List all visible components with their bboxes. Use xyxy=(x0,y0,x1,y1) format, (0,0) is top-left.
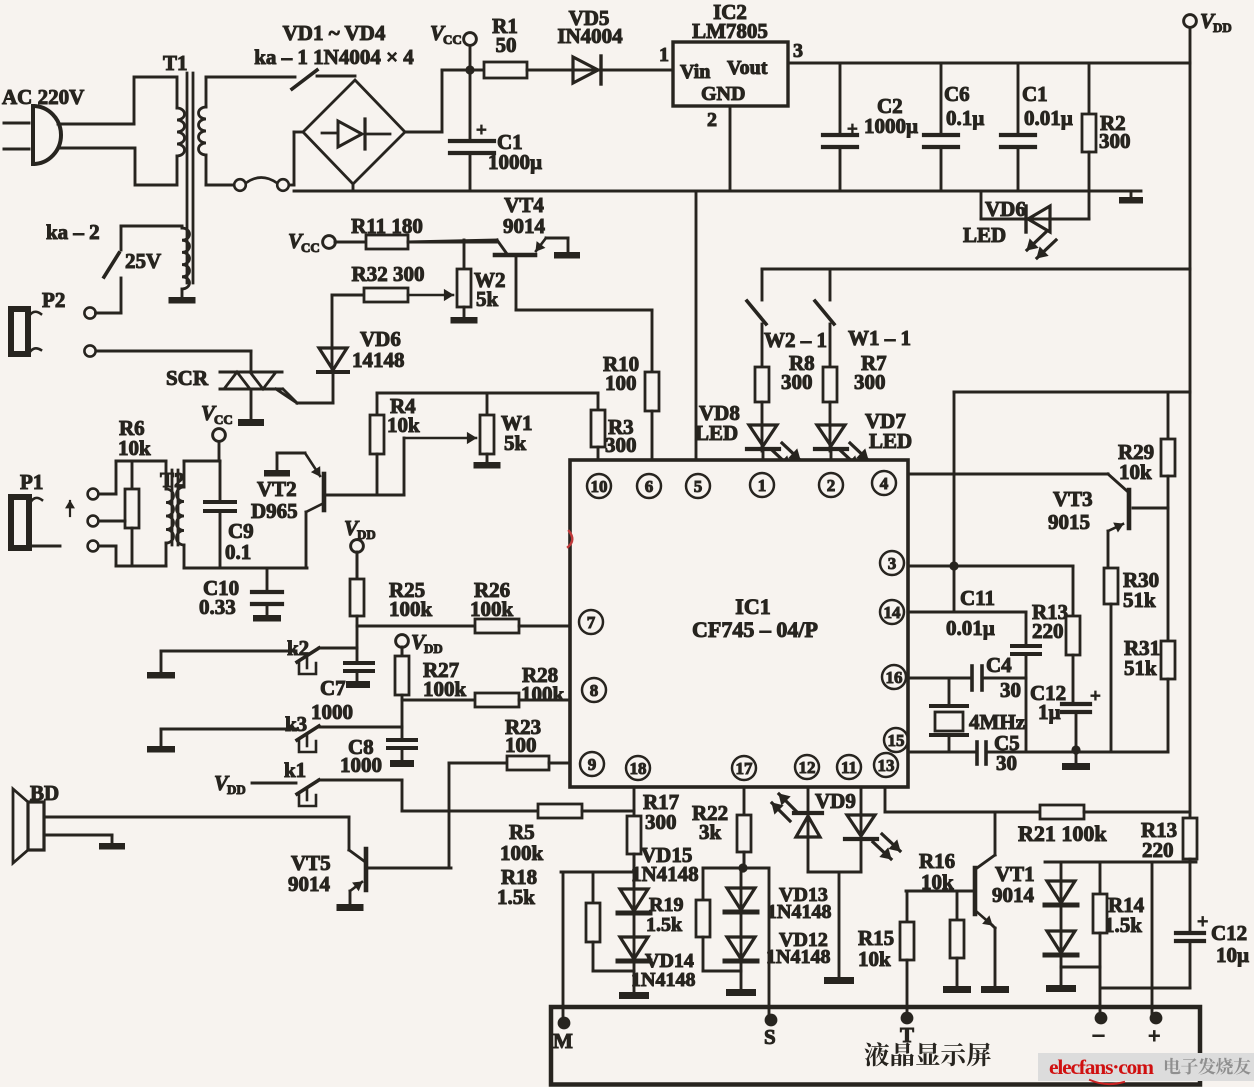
svg-text:100k: 100k xyxy=(389,597,433,621)
svg-text:3k: 3k xyxy=(699,820,722,844)
ground VD12 xyxy=(726,963,756,996)
svg-text:AC 220V: AC 220V xyxy=(2,85,84,109)
svg-text:Vout: Vout xyxy=(727,57,768,79)
svg-text:5k: 5k xyxy=(476,287,499,311)
wire pin16 xyxy=(908,653,1026,702)
svg-text:100: 100 xyxy=(605,371,637,395)
wire pin17 column xyxy=(743,787,746,815)
svg-text:7: 7 xyxy=(587,613,596,632)
resistor R25 100k xyxy=(350,552,433,626)
ground BD xyxy=(99,835,125,850)
svg-text:100k: 100k xyxy=(521,682,565,706)
speaker BD xyxy=(13,781,349,863)
svg-text:D965: D965 xyxy=(251,499,298,523)
terminal Vcc xyxy=(430,21,476,66)
diode VD6 14148 xyxy=(283,295,405,403)
resistor R6 10k xyxy=(99,416,167,566)
label ka-1 1N4004 x4 xyxy=(254,45,414,69)
switch W2-1 xyxy=(747,269,827,352)
svg-text:9: 9 xyxy=(588,755,597,774)
wire bridge to node xyxy=(405,70,470,132)
svg-text:0.01µ: 0.01µ xyxy=(946,616,995,640)
svg-text:5k: 5k xyxy=(504,431,527,455)
wire pin13 column xyxy=(884,787,887,812)
svg-text:LM7805: LM7805 xyxy=(692,19,768,43)
switch k2 xyxy=(161,636,357,674)
svg-text:1000µ: 1000µ xyxy=(864,114,918,138)
wire pin14 xyxy=(908,611,1026,614)
resistor R5 100k xyxy=(402,804,634,865)
LED VD8 xyxy=(695,401,800,467)
potentiometer W2 5k xyxy=(451,240,506,324)
svg-text:+: + xyxy=(476,120,487,141)
ground VT4 xyxy=(554,252,580,259)
watermark chinese xyxy=(1165,1058,1251,1075)
svg-text:R19: R19 xyxy=(649,894,683,916)
wire R23 to VT5 xyxy=(448,763,451,868)
svg-text:50: 50 xyxy=(496,33,517,57)
capacitor C1 1000u xyxy=(450,70,542,191)
transformer T1 secondary winding 1 xyxy=(199,77,296,185)
AC 220V label xyxy=(2,85,84,109)
svg-text:1: 1 xyxy=(659,44,669,66)
diode VD10 xyxy=(1045,862,1077,905)
svg-text:C11: C11 xyxy=(960,586,995,610)
svg-text:CC: CC xyxy=(443,32,462,47)
svg-text:1.5k: 1.5k xyxy=(646,914,683,936)
svg-text:0.01µ: 0.01µ xyxy=(1024,106,1073,130)
resistor R17 300 xyxy=(627,790,679,872)
svg-text:–: – xyxy=(1092,1021,1105,1046)
svg-text:300: 300 xyxy=(645,810,677,834)
ground k3 xyxy=(147,729,175,753)
LCD display box xyxy=(551,1007,1200,1085)
svg-text:30: 30 xyxy=(1000,678,1021,702)
svg-text:IC1: IC1 xyxy=(735,594,770,619)
svg-text:3: 3 xyxy=(793,40,803,62)
watermark band xyxy=(1038,1053,1254,1081)
svg-text:100k: 100k xyxy=(470,597,514,621)
ground VT5 xyxy=(337,904,364,911)
wire T2 bottom rail xyxy=(184,567,307,570)
wire bias rail xyxy=(377,392,598,395)
svg-text:VT3: VT3 xyxy=(1053,487,1093,511)
wire R13 node rail xyxy=(1045,861,1196,864)
AC plug P0 xyxy=(4,106,134,164)
capacitor C6 0.1u xyxy=(924,63,984,191)
resistor R4 10k xyxy=(370,393,420,495)
svg-text:LED: LED xyxy=(963,223,1006,247)
diode VD14 1N4148 xyxy=(618,915,695,991)
terminal Vcc 2 xyxy=(288,229,366,255)
svg-text:10k: 10k xyxy=(858,947,891,971)
svg-text:CC: CC xyxy=(301,240,320,255)
SCR triac xyxy=(166,351,297,403)
svg-text:Vin: Vin xyxy=(680,61,710,83)
resistor R28 100k xyxy=(402,663,570,707)
svg-text:VD6: VD6 xyxy=(985,197,1026,221)
terminal minus xyxy=(1092,1012,1107,1046)
LED VD6 xyxy=(963,191,1089,258)
resistor R2 300 xyxy=(1082,63,1131,191)
svg-text:W2 – 1: W2 – 1 xyxy=(764,328,827,352)
wire plus column xyxy=(1151,862,1154,1014)
wire fuse to bridge xyxy=(294,132,303,185)
svg-text:LED: LED xyxy=(869,429,912,453)
svg-text:VT2: VT2 xyxy=(257,477,297,501)
transformer T1 core xyxy=(187,73,193,283)
svg-text:220: 220 xyxy=(1142,838,1174,862)
svg-text:1.5k: 1.5k xyxy=(1104,913,1142,937)
svg-text:k1: k1 xyxy=(284,758,306,782)
svg-text:10µ: 10µ xyxy=(1216,943,1249,967)
svg-text:14: 14 xyxy=(884,603,902,622)
ground SCR xyxy=(238,389,264,426)
svg-text:51k: 51k xyxy=(1124,656,1157,680)
resistor R27 100k xyxy=(395,647,467,740)
svg-text:1000µ: 1000µ xyxy=(488,150,542,174)
resistor R21 100k xyxy=(885,805,1190,846)
diode VD13 1N4148 xyxy=(725,868,831,923)
svg-text:CF745 – 04/P: CF745 – 04/P xyxy=(692,617,818,642)
ground R16 xyxy=(943,986,971,993)
svg-text:1.5k: 1.5k xyxy=(497,885,535,909)
label Vdd k1 xyxy=(214,771,296,797)
svg-text:R21 100k: R21 100k xyxy=(1018,821,1107,846)
svg-text:2: 2 xyxy=(827,476,836,495)
resistor R14 1.5k xyxy=(1093,862,1145,1014)
resistor R1 xyxy=(470,14,571,78)
transistor VT2 D965 xyxy=(251,453,404,568)
resistor R13 220 osc xyxy=(1032,566,1080,655)
svg-text:13: 13 xyxy=(878,756,895,775)
svg-text:300: 300 xyxy=(781,370,813,394)
terminal M xyxy=(553,1017,573,1053)
svg-text:6: 6 xyxy=(645,477,654,496)
resistor R19 1.5k xyxy=(646,868,741,971)
ground VT1 xyxy=(981,986,1009,993)
switch k3 xyxy=(161,712,402,752)
svg-text:18: 18 xyxy=(630,759,647,778)
ground main rail xyxy=(1119,191,1143,204)
diode VD15 1N4148 xyxy=(618,843,699,913)
crystal X1 4MHz xyxy=(931,678,1025,752)
terminal Vdd 3 xyxy=(396,630,443,656)
wire M node xyxy=(561,872,634,1020)
resistor R26 100k xyxy=(357,578,570,633)
terminal T xyxy=(900,1012,914,1047)
wire Vdd rail xyxy=(1189,28,1192,819)
svg-text:ka – 1 1N4004 × 4: ka – 1 1N4004 × 4 xyxy=(254,45,414,69)
connector P2 xyxy=(11,288,96,357)
node junction Vcc xyxy=(465,65,474,74)
resistor R30 51k xyxy=(1104,568,1159,752)
svg-text:0.1µ: 0.1µ xyxy=(946,106,984,130)
terminal plus xyxy=(1148,1012,1162,1048)
svg-text:P2: P2 xyxy=(42,288,65,312)
node osc ground xyxy=(1071,745,1080,754)
wire pin5 ground xyxy=(695,191,698,460)
wire VT4 to R10 xyxy=(516,257,652,310)
connector P1 xyxy=(11,470,98,551)
red mark artifact xyxy=(568,531,572,547)
IC U1 CF745-04/P xyxy=(570,460,908,787)
resistor R31 51k xyxy=(1124,508,1175,752)
svg-text:10k: 10k xyxy=(921,870,954,894)
svg-text:C6: C6 xyxy=(944,82,970,106)
svg-text:1: 1 xyxy=(758,476,767,495)
wire T2 top rail xyxy=(184,460,220,463)
transformer T1 label xyxy=(163,51,188,75)
svg-text:ka – 2: ka – 2 xyxy=(46,220,100,244)
transformer T2 xyxy=(160,461,185,568)
ground k2 xyxy=(147,651,175,679)
capacitor C10 0.33 xyxy=(199,568,282,622)
svg-text:+: + xyxy=(847,119,858,140)
transformer T1 25V winding xyxy=(121,226,196,304)
diode VD11 xyxy=(1045,907,1077,955)
svg-text:M: M xyxy=(553,1029,573,1053)
svg-text:k3: k3 xyxy=(285,712,307,736)
svg-text:100k: 100k xyxy=(423,677,467,701)
svg-text:S: S xyxy=(764,1025,776,1049)
svg-text:220: 220 xyxy=(1032,619,1064,643)
resistor R15 10k xyxy=(858,891,914,1014)
svg-text:10: 10 xyxy=(591,477,608,496)
svg-text:8: 8 xyxy=(590,681,599,700)
switch k1 xyxy=(284,758,402,806)
wire osc ground rail xyxy=(908,731,1168,775)
resistor R23 100 xyxy=(449,715,570,770)
svg-text:12: 12 xyxy=(799,758,816,777)
svg-text:C1: C1 xyxy=(1022,82,1048,106)
svg-text:P1: P1 xyxy=(20,470,43,494)
switch ka-2 xyxy=(46,220,121,277)
ground VD14 xyxy=(619,963,649,999)
svg-text:CC: CC xyxy=(214,412,233,427)
ground VD9 xyxy=(824,872,854,984)
svg-text:+: + xyxy=(1197,911,1208,933)
capacitor C7 1000 xyxy=(311,626,373,724)
bridge rectifier VD1-VD4 xyxy=(303,80,405,184)
resistor R32 300 xyxy=(332,262,453,302)
svg-text:IN4004: IN4004 xyxy=(557,24,623,48)
regulator IC2 LM7805 xyxy=(659,0,803,131)
label VD1-VD4 xyxy=(283,21,386,45)
transformer T1 primary winding xyxy=(134,77,185,185)
resistor R22 3k xyxy=(692,801,751,866)
svg-text:C4: C4 xyxy=(986,653,1012,677)
svg-text:T: T xyxy=(900,1023,914,1047)
svg-text:DD: DD xyxy=(1213,20,1232,35)
svg-text:9014: 9014 xyxy=(288,872,331,896)
capacitor C12 10u xyxy=(1102,859,1249,988)
capacitor C12 1u xyxy=(1030,655,1101,750)
wire pin3 node xyxy=(908,392,1073,612)
svg-text:10k: 10k xyxy=(1119,460,1152,484)
svg-text:C7: C7 xyxy=(320,676,346,700)
wire P2 to ka-2 xyxy=(96,278,122,313)
watermark elecfans xyxy=(1049,1055,1154,1084)
potentiometer W1 5k xyxy=(474,393,533,469)
svg-text:9014: 9014 xyxy=(503,214,546,238)
resistor R16 10k xyxy=(919,849,964,986)
svg-text:2: 2 xyxy=(707,109,717,131)
svg-text:25V: 25V xyxy=(125,249,161,273)
resistor R7 300 xyxy=(823,324,887,402)
svg-text:1N4148: 1N4148 xyxy=(767,901,831,923)
svg-text:R32 300: R32 300 xyxy=(352,262,425,286)
LED pair VD9 xyxy=(772,787,900,872)
svg-text:9015: 9015 xyxy=(1048,510,1090,534)
svg-text:T1: T1 xyxy=(163,51,188,75)
wire Vdd to pin3 rail xyxy=(954,391,1190,394)
svg-text:1N4148: 1N4148 xyxy=(631,969,695,991)
svg-text:1µ: 1µ xyxy=(1038,700,1061,724)
svg-text:11: 11 xyxy=(841,758,857,777)
resistor R8 300 xyxy=(755,324,815,402)
svg-text:VD9: VD9 xyxy=(815,789,856,813)
svg-text:30: 30 xyxy=(996,751,1017,775)
svg-text:5: 5 xyxy=(694,477,703,496)
svg-text:1N4148: 1N4148 xyxy=(631,862,699,886)
svg-text:3: 3 xyxy=(888,554,897,573)
LED VD7 xyxy=(815,402,912,467)
svg-text:DD: DD xyxy=(424,641,443,656)
transistor VT4 9014 xyxy=(495,193,568,255)
svg-text:VD1 ~ VD4: VD1 ~ VD4 xyxy=(283,21,386,45)
svg-text:10k: 10k xyxy=(387,413,420,437)
capacitor C2 1000u xyxy=(823,63,918,191)
svg-text:LED: LED xyxy=(695,421,738,445)
fuse F1 xyxy=(234,178,294,191)
svg-text:100: 100 xyxy=(505,733,537,757)
wire VT2 to W1 wiper xyxy=(404,433,476,495)
resistor R29 10k xyxy=(1118,392,1175,508)
svg-text:0.1: 0.1 xyxy=(225,540,251,564)
ground VD11 xyxy=(1046,957,1100,992)
svg-text:elecfans·com: elecfans·com xyxy=(1049,1055,1154,1079)
switch ka-1 xyxy=(292,70,355,89)
svg-text:C12: C12 xyxy=(1211,921,1247,945)
node R22 xyxy=(703,852,769,873)
capacitor C9 0.1 xyxy=(205,461,254,568)
terminal S xyxy=(764,1014,777,1049)
svg-text:1000: 1000 xyxy=(311,700,353,724)
svg-text:15: 15 xyxy=(888,731,905,750)
wire S column xyxy=(768,868,771,1018)
wire switch feed rail xyxy=(762,268,1190,271)
transistor VT1 9014 xyxy=(906,812,1035,986)
wire ground rail xyxy=(294,190,1141,193)
switch W1-1 xyxy=(815,269,911,350)
svg-text:10k: 10k xyxy=(118,436,151,460)
svg-text:GND: GND xyxy=(701,83,745,105)
svg-text:0.33: 0.33 xyxy=(199,595,236,619)
svg-text:300: 300 xyxy=(1099,129,1131,153)
wire IC2 GND pin2 xyxy=(729,106,732,191)
svg-text:4: 4 xyxy=(880,474,889,493)
svg-text:14148: 14148 xyxy=(352,348,405,372)
wire bridge bottom stub xyxy=(352,184,355,191)
wire P2 to SCR xyxy=(96,350,251,353)
svg-text:300: 300 xyxy=(854,370,886,394)
transistor VT5 9014 xyxy=(288,817,451,904)
svg-text:+: + xyxy=(1148,1023,1161,1048)
ground osc xyxy=(1062,752,1090,770)
svg-text:1N4148: 1N4148 xyxy=(766,946,830,968)
svg-text:9014: 9014 xyxy=(992,883,1035,907)
resistor R10 100 xyxy=(603,310,659,460)
diode VD5 xyxy=(557,6,673,84)
svg-text:SCR: SCR xyxy=(166,366,209,390)
svg-text:100k: 100k xyxy=(500,841,544,865)
svg-text:W1 – 1: W1 – 1 xyxy=(848,326,911,350)
wire IC2 output rail xyxy=(788,62,1190,65)
svg-text:DD: DD xyxy=(227,782,246,797)
svg-text:1000: 1000 xyxy=(340,753,382,777)
resistor R18 1.5k xyxy=(497,865,634,971)
svg-text:16: 16 xyxy=(886,668,903,687)
terminal Vdd 2 xyxy=(344,516,376,579)
capacitor C11 0.01u xyxy=(946,586,1040,752)
svg-text:17: 17 xyxy=(736,759,754,778)
terminal Vdd xyxy=(1184,9,1232,35)
transistor VT3 9015 xyxy=(908,474,1168,568)
diode VD12 1N4148 xyxy=(725,914,830,968)
terminal Vcc 3 xyxy=(201,401,233,461)
capacitor C8 1000 xyxy=(340,735,416,777)
resistor R13 220 right xyxy=(1141,818,1197,862)
resistor R11 180 xyxy=(335,214,497,249)
wire k1 to R5 xyxy=(401,780,404,811)
svg-text:300: 300 xyxy=(605,433,637,457)
capacitor C1 0.01u xyxy=(1001,63,1073,191)
svg-text:51k: 51k xyxy=(1123,588,1156,612)
resistor R3 300 xyxy=(591,393,637,460)
wire pin18 column xyxy=(633,787,636,816)
